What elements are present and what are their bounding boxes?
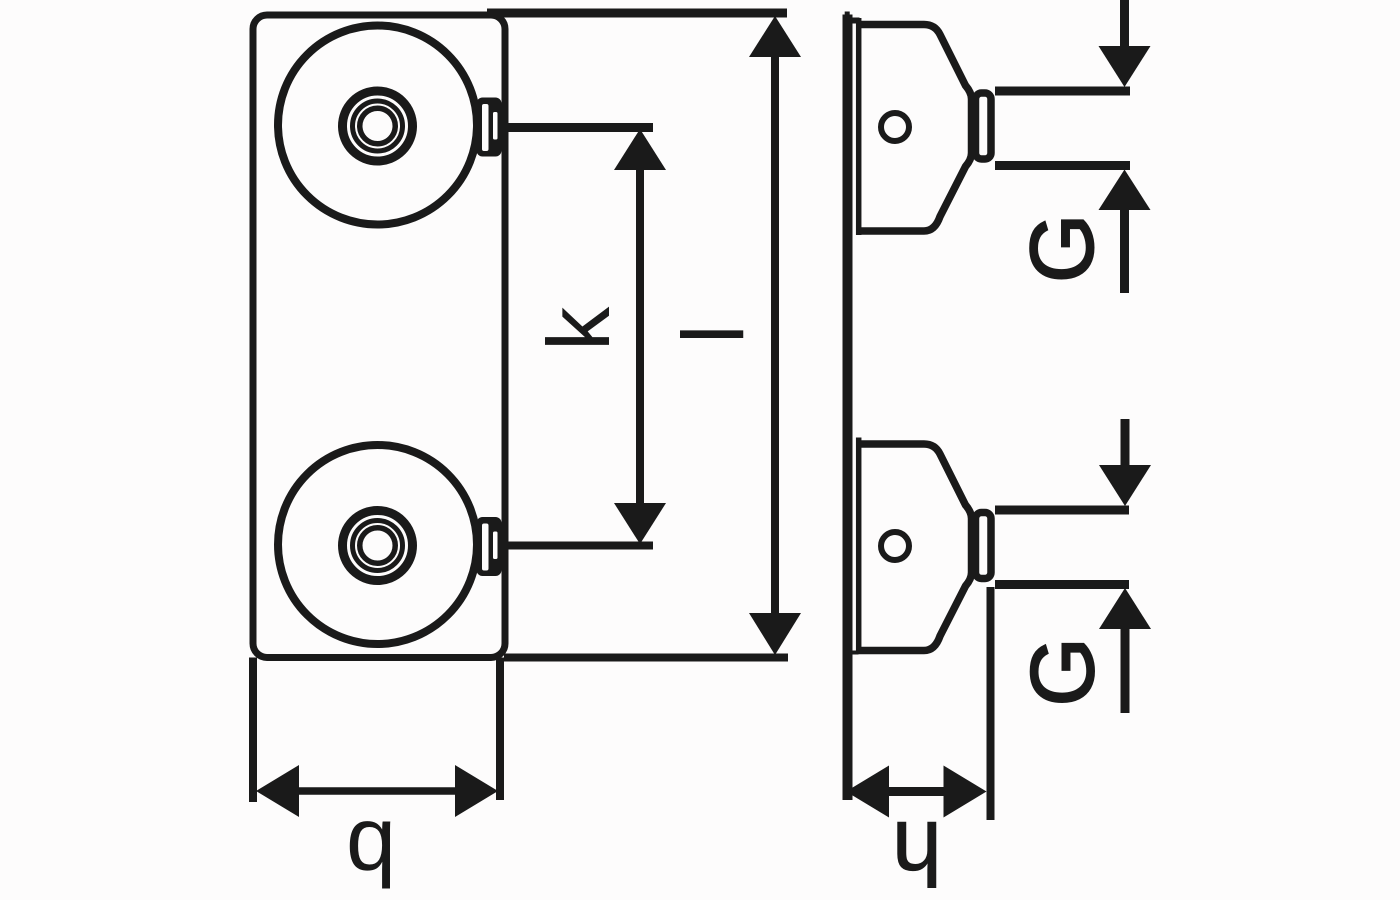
svg-text:q: q	[346, 790, 396, 890]
svg-text:l: l	[666, 325, 763, 344]
svg-text:G: G	[1012, 637, 1112, 706]
svg-text:k: k	[529, 306, 628, 351]
svg-text:h: h	[892, 802, 942, 900]
svg-text:G: G	[1012, 214, 1112, 283]
